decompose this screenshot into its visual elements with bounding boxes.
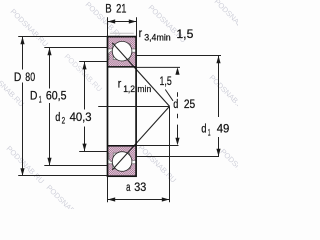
outer ring OD face thin line between chamfers bbox=[110, 32, 134, 34]
svg-text:r: r bbox=[118, 79, 122, 91]
d arrows bbox=[175, 67, 179, 75]
B dimension line bbox=[108, 21, 137, 23]
svg-text:21: 21 bbox=[116, 3, 126, 15]
svg-text:r: r bbox=[139, 28, 143, 40]
svg-text:2: 2 bbox=[62, 115, 66, 125]
mirrored bottom section bbox=[107, 106, 169, 176]
svg-text:B: B bbox=[105, 3, 112, 15]
r 1,2 leader line bbox=[165, 90, 173, 101]
outer ring (top band with side shoulders) bbox=[107, 36, 136, 49]
B arrows bbox=[108, 19, 116, 23]
axis line bbox=[98, 106, 169, 108]
d2 dimension line (broken at text) bbox=[84, 62, 86, 110]
svg-text:1,2 min: 1,2 min bbox=[123, 84, 151, 94]
bore-side bold edge of section bbox=[107, 66, 136, 68]
d1 dimension line (broken at text) bbox=[218, 56, 220, 118]
svg-text:49: 49 bbox=[217, 124, 230, 136]
watermark tiles bbox=[0, 0, 260, 224]
svg-text:1,5: 1,5 bbox=[176, 29, 193, 41]
B dimension extension lines bbox=[107, 17, 109, 36]
svg-text:d: d bbox=[55, 112, 60, 124]
d2 arrows bbox=[82, 62, 86, 70]
d dimension line (dashed segments between texts) bbox=[177, 92, 179, 97]
D dimension line (broken at text) bbox=[22, 37, 24, 70]
a dimension line bbox=[108, 199, 170, 201]
d1 arrows bbox=[216, 56, 220, 64]
svg-text:D: D bbox=[14, 72, 21, 84]
svg-text:80: 80 bbox=[25, 72, 35, 84]
d1 extension lines (right) bbox=[136, 55, 221, 57]
svg-text:1,5: 1,5 bbox=[160, 76, 172, 88]
svg-text:1: 1 bbox=[39, 95, 42, 105]
contact angle line (top) extended to pressure center bbox=[112, 43, 169, 107]
svg-text:33: 33 bbox=[134, 182, 146, 194]
ball (rolling element) bbox=[112, 41, 132, 61]
a arrows bbox=[108, 197, 116, 201]
bearing cross-sections: top section drawn, bottom section mirrored about axis y=106.35 bbox=[107, 36, 169, 106]
a extension lines bbox=[107, 176, 109, 202]
D1 dimension line (broken at text) bbox=[49, 48, 51, 89]
svg-text:60,5: 60,5 bbox=[46, 91, 67, 103]
svg-text:d: d bbox=[173, 99, 178, 111]
D arrows bbox=[20, 37, 24, 45]
D extension lines bbox=[18, 36, 107, 38]
D1 extension lines bbox=[44, 47, 107, 49]
d extension lines (right) bbox=[136, 66, 180, 68]
arrowheads bbox=[20, 19, 220, 201]
svg-text:1: 1 bbox=[208, 127, 211, 137]
svg-text:D: D bbox=[30, 91, 37, 103]
bearing outline rectangle (bold) bbox=[108, 37, 137, 177]
svg-text:3,4min: 3,4min bbox=[144, 32, 171, 42]
svg-text:40,3: 40,3 bbox=[70, 112, 92, 124]
svg-text:25: 25 bbox=[184, 99, 195, 111]
inner ring (bottom band, left wedge shoulder, right shoulder column) bbox=[107, 51, 136, 67]
svg-text:a: a bbox=[126, 182, 131, 194]
d2 extension lines bbox=[79, 61, 107, 63]
svg-text:d: d bbox=[201, 124, 206, 136]
dimension texts bbox=[14, 3, 229, 194]
D1 arrows bbox=[47, 48, 51, 56]
